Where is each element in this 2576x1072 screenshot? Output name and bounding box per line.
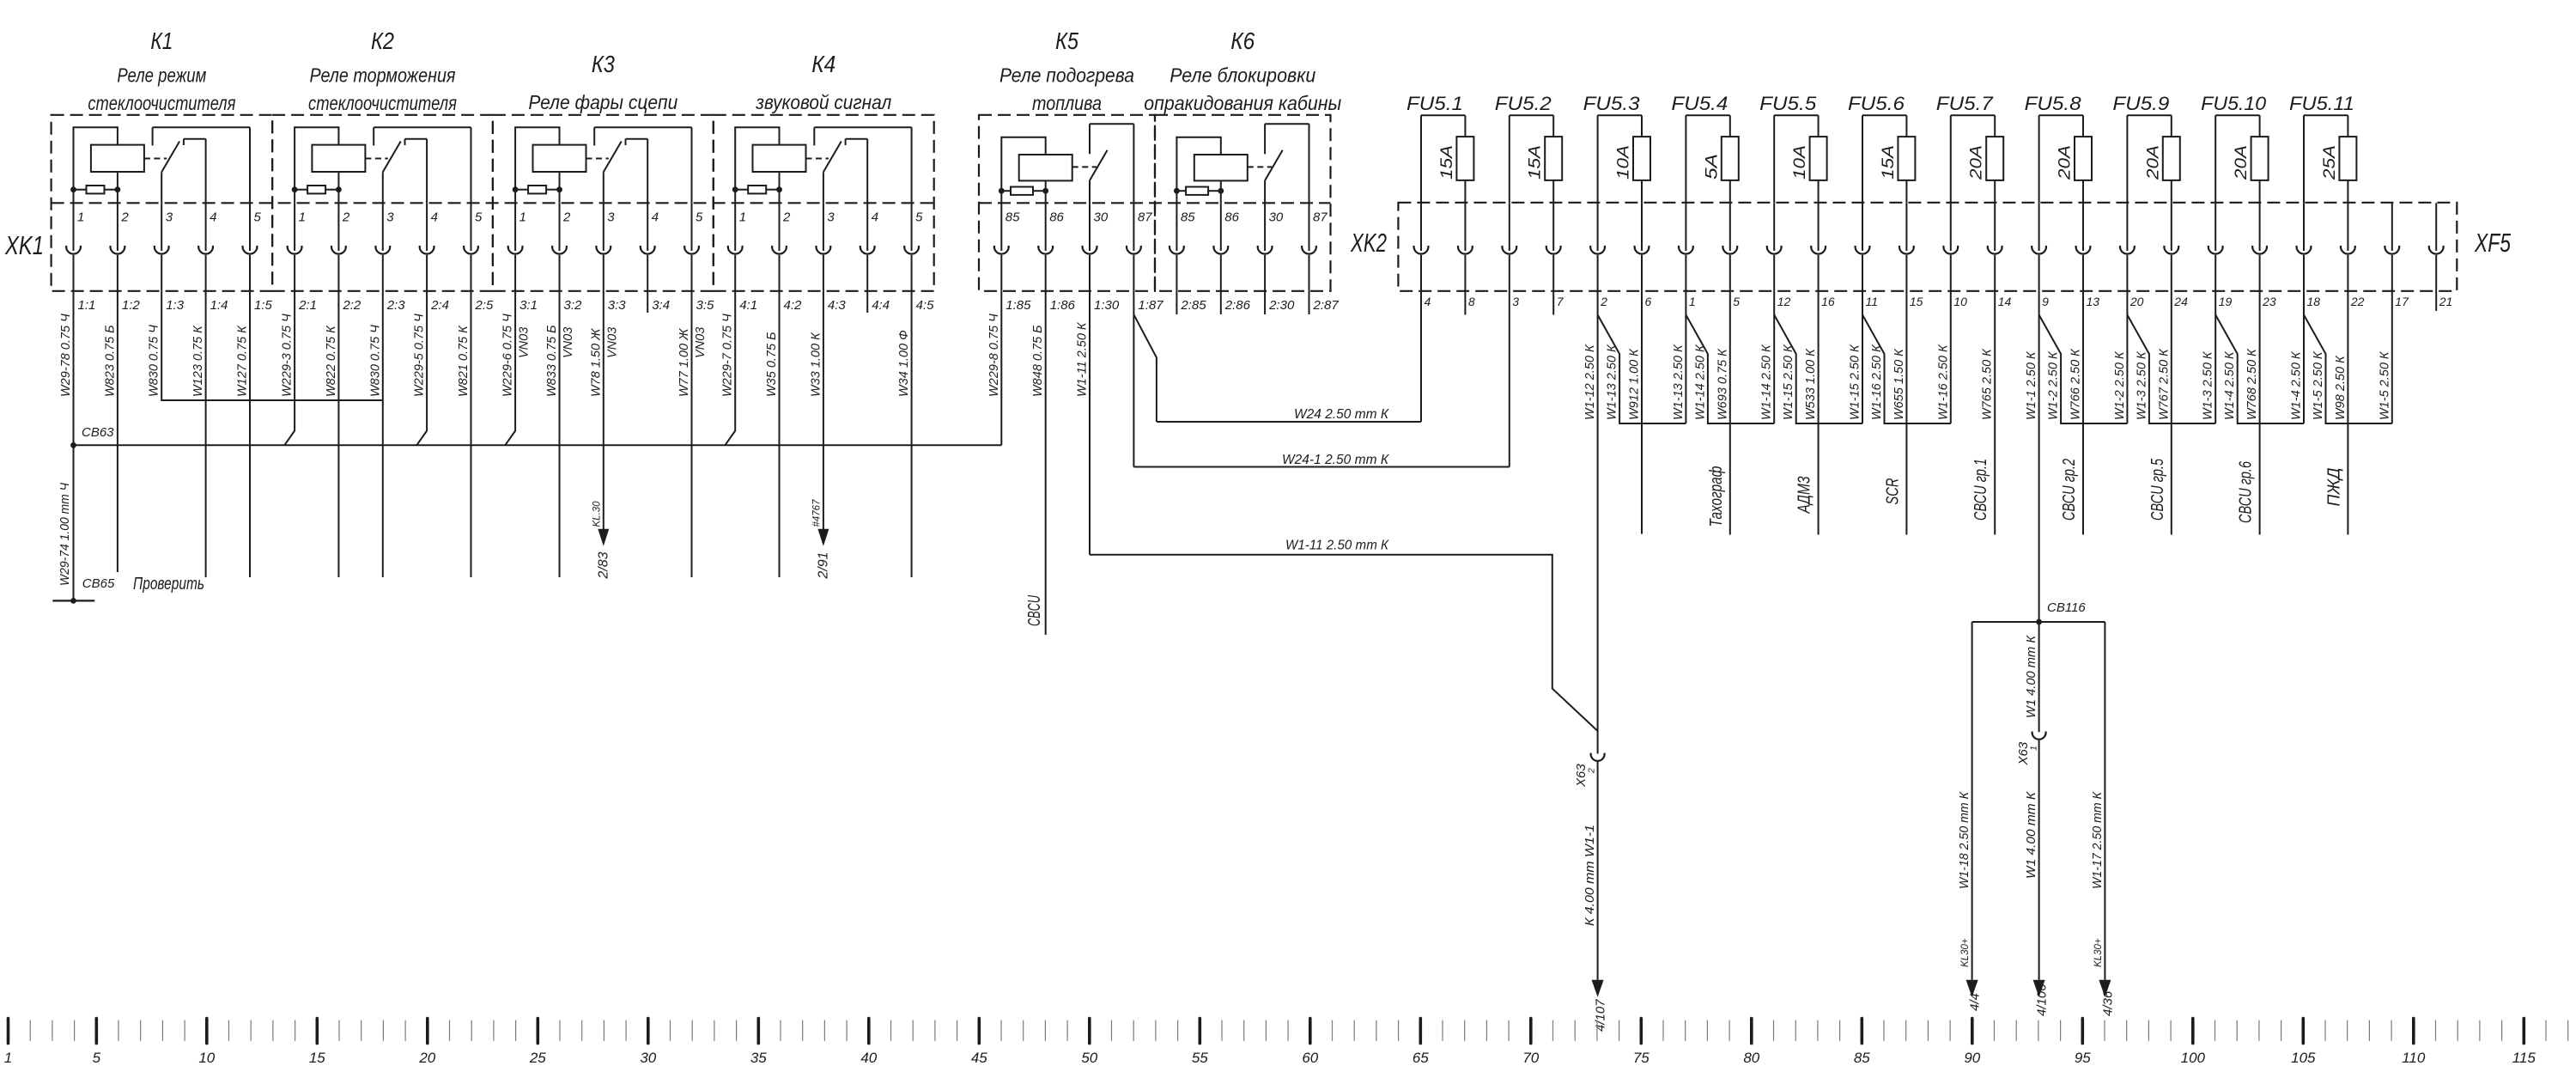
svg-text:25: 25 [529,1050,546,1066]
svg-text:Проверить: Проверить [133,575,204,594]
svg-text:FU5.2: FU5.2 [1495,93,1552,114]
wire 4:2 W35 [779,291,781,577]
svg-text:X63: X63 [1574,764,1589,788]
wire label VN03 [694,327,708,358]
XK1 pin 2:87 connector [1302,203,1339,313]
relay K2 title [308,27,457,114]
wire 4:4 stub [866,291,868,313]
svg-text:23: 23 [2262,295,2276,308]
svg-text:3:2: 3:2 [564,298,583,313]
svg-text:W229-8 0.75 Ч: W229-8 0.75 Ч [987,314,1001,397]
svg-text:W1-13 2.50 К: W1-13 2.50 К [1672,344,1686,420]
XK1 pin 1:1 connector [66,203,95,313]
XK2 pin 24 connector [2164,203,2188,308]
wire label W823 at pin x=136.9 [103,325,117,397]
svg-text:2:4: 2:4 [430,298,449,313]
svg-text:W1-18 2.50 mm К: W1-18 2.50 mm К [1958,791,1971,889]
wire pin8 stub [1464,291,1466,315]
wire pin17 W1-5 [2378,291,2392,423]
wire pin15 W655 to SCR [1883,291,1906,535]
XK2 pin 4 connector [1414,203,1431,308]
XK1 pin 3:4 connector [641,203,670,313]
svg-text:К1: К1 [150,27,173,54]
relay K6 coil [1176,137,1247,204]
bus W24-1 [1133,453,1509,467]
XK2 pin 10 connector [1943,203,1967,308]
XK2 pin 17 connector [2385,203,2409,308]
svg-text:1:86: 1:86 [1050,298,1076,313]
svg-text:30: 30 [1269,210,1284,225]
svg-text:FU5.9: FU5.9 [2112,93,2169,114]
wire branch W1-5 to pin17 [2304,315,2392,424]
svg-text:W766 2.50 К: W766 2.50 К [2069,348,2083,420]
svg-text:24: 24 [2173,295,2188,308]
XK1 pin 1:30 connector [1083,203,1120,313]
XK2 pin 12 connector [1767,203,1791,308]
wire W1 to connector X63 pin 1 [2025,622,2039,732]
svg-text:22: 22 [2350,295,2365,308]
XK2 pin 23 connector [2252,203,2276,308]
XK1 pin 1:87 connector [1127,203,1163,313]
svg-text:W1-13 2.50 К: W1-13 2.50 К [1606,344,1619,420]
XK2 pin 7 connector [1546,203,1564,308]
wire pin4 to bus W24 [1420,291,1422,422]
svg-text:1:3: 1:3 [166,298,185,313]
svg-text:CBCU: CBCU [1025,595,1044,626]
wire 3:5 W77 [691,291,693,577]
svg-text:W848 0.75 Б: W848 0.75 Б [1031,325,1045,397]
relay K2 resistor [292,186,342,203]
wire label W821 at pin x=548.5 [457,325,471,397]
svg-text:15A: 15A [1880,145,1898,180]
wire W1-17 to arrow 4/36 [2091,622,2116,1016]
svg-text:1:5: 1:5 [254,298,273,313]
svg-text:К2: К2 [371,27,394,54]
svg-text:4:1: 4:1 [739,298,757,313]
fuse FU5.6 15A [1848,93,1915,203]
relay K6 pin numbers [1181,210,1327,225]
svg-text:W1-16 2.50 К: W1-16 2.50 К [1936,344,1950,420]
svg-text:4: 4 [431,210,438,225]
svg-text:87: 87 [1138,210,1152,225]
svg-text:10A: 10A [1791,145,1809,180]
svg-text:95: 95 [2075,1050,2091,1066]
XK1 pin 4:2 connector [772,203,802,313]
svg-text:W912 1.00 К: W912 1.00 К [1628,348,1642,420]
svg-text:W1 4.00 mm К: W1 4.00 mm К [2025,790,2038,879]
XK1 pin 4:5 connector [904,203,934,313]
svg-text:2/91: 2/91 [816,551,830,579]
svg-text:20: 20 [418,1050,435,1066]
svg-text:2: 2 [562,210,571,225]
relay K1 contact [144,127,250,203]
svg-text:стеклоочистителя: стеклоочистителя [308,92,457,114]
XK2 pin 19 connector [2208,203,2233,308]
wire label W229-7 at pin x=856.2 [721,314,735,397]
XK1 pin 1:3 connector [155,203,185,313]
svg-text:1:30: 1:30 [1094,298,1120,313]
svg-text:W35 0.75 Б: W35 0.75 Б [765,332,779,397]
svg-text:W1-16 2.50 К: W1-16 2.50 К [1870,344,1884,420]
wire 4:1 W229-7 joins CB63 [725,291,735,446]
XK1 pin 1:86 connector [1038,203,1075,313]
svg-text:W33 1.00 К: W33 1.00 К [809,332,823,397]
relay K3 resistor [513,186,562,203]
wire 1:86 W848 to CBCU [1025,291,1046,635]
svg-text:21: 21 [2439,295,2453,308]
svg-text:W767 2.50 К: W767 2.50 К [2157,348,2171,420]
wire 2:3 W830 [382,291,384,577]
wire pin21 stub [2435,291,2437,311]
svg-text:2: 2 [1600,295,1607,308]
svg-text:1: 1 [4,1050,12,1066]
svg-text:опракидования кабины: опракидования кабины [1144,92,1341,114]
svg-text:15: 15 [1910,295,1923,308]
svg-text:VN03: VN03 [605,327,619,358]
svg-text:50: 50 [1081,1050,1097,1066]
XK1 pin separation line (K5-K6) [979,202,1331,204]
svg-text:1: 1 [2029,746,2039,751]
wire label W229-6 at pin x=600.1 [501,314,515,397]
svg-text:5: 5 [696,210,703,225]
svg-text:100: 100 [2181,1050,2206,1066]
svg-text:W765 2.50 К: W765 2.50 К [1981,348,1995,420]
wire pin7 stub [1552,291,1554,315]
wire label W833 at pin x=651.5 [545,325,559,397]
relay K5 coil [1001,137,1072,204]
svg-text:VN03: VN03 [694,327,708,358]
svg-text:KL.30: KL.30 [592,501,602,527]
node CB65 terminal [52,576,115,604]
svg-text:4/106: 4/106 [2035,984,2050,1016]
XK1 pin 1:4 connector [198,203,228,313]
connector X63 pin 1 [2016,732,2046,766]
XK2 pin 15 connector [1899,203,1923,308]
svg-text:СВСU гр.1: СВСU гр.1 [1971,459,1990,521]
svg-text:16: 16 [1821,295,1835,308]
svg-text:W1-5 2.50 К: W1-5 2.50 К [2312,350,2325,420]
svg-text:1:4: 1:4 [210,298,228,313]
svg-text:X63: X63 [2016,741,2031,765]
svg-text:Реле торможения: Реле торможения [310,64,456,87]
svg-text:2:5: 2:5 [475,298,495,313]
svg-text:W24 2.50 mm К: W24 2.50 mm К [1294,407,1389,422]
relay K3 coil [515,127,586,203]
svg-text:SCR: SCR [1883,478,1902,505]
svg-text:К3: К3 [592,51,615,77]
wire label W29-78 at pin x=85.5 [59,314,73,397]
svg-text:5A: 5A [1703,154,1721,180]
svg-text:W29-74 1.00 mm Ч: W29-74 1.00 mm Ч [58,483,72,586]
wire branch W1-2 to pin20 [2039,315,2128,424]
XK2 pin 20 connector [2120,203,2144,308]
svg-text:W1-15 2.50 К: W1-15 2.50 К [1849,344,1862,420]
svg-text:XK2: XK2 [1350,228,1387,258]
svg-text:20A: 20A [2233,145,2251,180]
XK1 pin 2:85 connector [1170,203,1206,313]
svg-text:VN03: VN03 [518,327,532,358]
relay K5 title [999,27,1134,114]
wire pin1 W1-13 [1672,291,1686,423]
svg-text:1:1: 1:1 [78,298,96,313]
wire branch W1-14 to pin12 [1686,315,1774,424]
svg-text:4:3: 4:3 [828,298,847,313]
relay K5 box [979,115,1155,291]
relay K6 contact [1248,124,1309,203]
XK1 pin separation line (K1-K4) [52,202,934,204]
wire 1:87 to bus W24-1 [1133,314,1134,466]
svg-text:5: 5 [915,210,923,225]
relay K3 box [493,115,714,291]
relay K4 contact [806,127,912,203]
wire pin24 W767 to CBCU гр.5 [2148,291,2172,535]
wire label VN03 [518,327,532,358]
svg-text:1: 1 [77,210,84,225]
svg-text:8: 8 [1468,295,1475,308]
svg-text:W34 1.00 Ф: W34 1.00 Ф [897,330,911,397]
connector X63 pin 2 [1574,753,1605,788]
relay K1 pin numbers [77,210,262,225]
fuse FU5.2 15A [1495,93,1562,203]
XK2 pin 13 connector [2076,203,2100,308]
svg-text:4: 4 [210,210,216,225]
svg-text:85: 85 [1181,210,1195,225]
svg-text:W830 0.75 Ч: W830 0.75 Ч [368,325,382,397]
svg-text:W655 1.50 К: W655 1.50 К [1893,348,1906,420]
svg-text:W533 1.00 К: W533 1.00 К [1804,348,1818,420]
relay K4 box [714,115,934,291]
svg-text:Реле режим: Реле режим [117,64,206,87]
wire pin18 W1-4 [2290,291,2305,423]
wire label W78 at pin x=702.8 [589,328,603,397]
wire W29-74 CB63 to CB65 [58,445,74,600]
svg-text:3:3: 3:3 [608,298,627,313]
svg-text:20A: 20A [2144,145,2162,180]
svg-text:10: 10 [1953,295,1967,308]
wire 4:3 W33 to arrow 2/91 [811,291,830,580]
svg-text:W229-6 0.75 Ч: W229-6 0.75 Ч [501,314,515,397]
svg-text:W830 0.75 Ч: W830 0.75 Ч [148,325,161,397]
svg-text:К6: К6 [1230,27,1255,54]
wire branch W1-16 to pin10 [1862,315,1951,424]
relay K3 contact [586,127,692,203]
wire label W127 at pin x=291 [236,325,250,397]
relay K2 coil [295,127,365,203]
XK1 pin 2:86 connector [1213,203,1250,313]
relay K3 pin numbers [519,210,703,225]
relay K2 contact [365,127,471,203]
XK1 pin 3:1 connector [508,203,538,313]
wire label W822 at pin x=394.4 [325,325,338,397]
svg-text:FU5.1: FU5.1 [1406,93,1463,114]
XK1 pin 3:2 connector [552,203,582,313]
wire W1-18 to arrow 4/4 [1958,622,1983,1011]
svg-text:85: 85 [1854,1050,1870,1066]
svg-text:W1-12 2.50 К: W1-12 2.50 К [1583,344,1597,420]
svg-text:стеклоочистителя: стеклоочистителя [88,92,235,114]
svg-text:W833 0.75 Б: W833 0.75 Б [545,325,559,397]
svg-text:FU5.8: FU5.8 [2025,93,2082,114]
wire 4:5 W34 [911,291,913,577]
wire pin3 to bus W24-1 [1509,291,1510,467]
wire 2:5 W821 [471,291,472,577]
XK1 pin 2:2 connector [331,203,361,313]
bus CB63 [70,425,1001,448]
fuse FU5.11 25A [2289,93,2356,203]
svg-text:15: 15 [309,1050,325,1066]
svg-text:4: 4 [872,210,878,225]
svg-text:86: 86 [1049,210,1064,225]
svg-text:2: 2 [782,210,791,225]
relay K5 pin numbers [1005,210,1152,225]
svg-text:19: 19 [2219,295,2233,308]
wire pin11 W1-15 [1849,291,1863,423]
XK1 pin 2:4 connector [420,203,449,313]
wire 1:87 stub [1133,291,1134,314]
svg-text:1:2: 1:2 [122,298,141,313]
svg-text:W24-1 2.50 mm К: W24-1 2.50 mm К [1282,453,1389,467]
svg-text:W1-1 2.50 К: W1-1 2.50 К [2025,350,2038,420]
svg-text:15A: 15A [1438,145,1456,180]
wire label W229-3 at pin x=343.1 [281,314,295,397]
wire branch W1-3 to pin19 [2127,315,2215,424]
svg-text:3: 3 [166,210,173,225]
svg-text:35: 35 [750,1050,767,1066]
svg-text:60: 60 [1302,1050,1318,1066]
svg-text:80: 80 [1743,1050,1759,1066]
relay K4 title [755,51,891,113]
svg-text:W1-5 2.50 К: W1-5 2.50 К [2378,350,2391,420]
svg-text:XF5: XF5 [2474,228,2511,258]
svg-text:W823 0.75 Б: W823 0.75 Б [103,325,117,397]
svg-text:FU5.6: FU5.6 [1848,93,1905,114]
relay K6 resistor [1174,187,1224,204]
svg-text:85: 85 [1005,210,1020,225]
svg-text:10A: 10A [1615,145,1633,180]
fuse FU5.5 10A [1759,93,1826,203]
svg-text:W1-14 2.50 К: W1-14 2.50 К [1693,344,1707,420]
XK1 pin 4:1 connector [728,203,757,313]
connector XF5 label [2474,228,2511,258]
wire 2:87 stub [1309,291,1310,314]
svg-text:2:86: 2:86 [1224,298,1251,313]
svg-text:W1-4 2.50 К: W1-4 2.50 К [2223,350,2237,420]
XK2 pin 6 connector [1635,203,1652,308]
wire pin6 W912 [1628,291,1643,534]
XK1 pin 2:30 connector [1258,203,1295,313]
wire pin9 W1-1 down to node CB116 [2025,291,2039,622]
wire branch W1-15 to pin11 [1774,315,1862,424]
svg-text:7: 7 [1557,295,1564,308]
svg-text:4: 4 [652,210,659,225]
wire pin5 W693 to Тахограф [1707,291,1730,535]
XK2 pin 21 connector [2429,203,2452,308]
relay K2 box [272,115,493,291]
svg-text:3:5: 3:5 [696,298,715,313]
connector strip XK2/XF5 box [1398,203,2457,291]
wire pin16 W533 to АДМ3 [1795,291,1819,535]
svg-text:20: 20 [2129,295,2144,308]
svg-text:W1-11 2.50 К: W1-11 2.50 К [1076,321,1090,397]
wire 2:2 W822 [337,291,339,577]
wire 3:1 W229-6 joins CB63 [505,291,515,446]
svg-text:К 4.00 mm W1-1: К 4.00 mm W1-1 [1583,825,1597,926]
wire label W830 at pin x=445.8 [368,325,382,397]
svg-text:W693 0.75 К: W693 0.75 К [1716,348,1729,420]
ruler numbers [4,1050,2537,1066]
svg-text:1: 1 [1689,295,1696,308]
svg-text:13: 13 [2087,295,2100,308]
wire label W848 at pin x=1217.7 [1031,325,1045,397]
svg-text:2:3: 2:3 [386,298,406,313]
bus W1-11 [1090,539,1598,731]
svg-text:Реле фары сцепи: Реле фары сцепи [528,91,677,113]
fuse FU5.9 20A [2112,93,2179,203]
svg-text:3:1: 3:1 [519,298,538,313]
svg-text:W29-78 0.75 Ч: W29-78 0.75 Ч [59,314,73,397]
relay K1 box [52,115,273,291]
relay K2 pin numbers [299,210,483,225]
wire 2:85 stub [1176,291,1177,314]
XK1 pin 3:5 connector [684,203,714,313]
wire 1:2 W823 [117,291,118,572]
svg-text:115: 115 [2512,1050,2537,1066]
XK2 pin 18 connector [2297,203,2321,308]
svg-text:2:85: 2:85 [1180,298,1206,313]
wire W1-1 down to arrow 4/107 [1583,762,1608,1032]
svg-text:70: 70 [1522,1050,1539,1066]
svg-text:2: 2 [342,210,350,225]
svg-text:2:30: 2:30 [1268,298,1295,313]
svg-text:АДМ3: АДМ3 [1795,477,1814,515]
svg-text:4/36: 4/36 [2100,990,2115,1016]
svg-text:3:4: 3:4 [652,298,670,313]
svg-text:#4767: #4767 [811,499,822,527]
svg-text:87: 87 [1313,210,1327,225]
svg-text:W1-2 2.50 К: W1-2 2.50 К [2047,350,2061,420]
svg-text:ПЖД: ПЖД [2324,468,2343,507]
XK1 pin 1:85 connector [994,203,1031,313]
svg-text:W229-5 0.75 Ч: W229-5 0.75 Ч [413,314,427,397]
wire 1:87 branch to bus W24 [1133,314,1157,422]
svg-text:W123 0.75 К: W123 0.75 К [191,325,205,397]
svg-text:40: 40 [860,1050,877,1066]
wire pin23 W768 to CBCU гр.6 [2237,291,2260,535]
svg-text:W1-3 2.50 К: W1-3 2.50 К [2202,350,2215,420]
wire label W123 at pin x=239.6 [191,325,205,397]
fuse FU5.4 5A [1671,93,1738,203]
svg-text:W1-17 2.50 mm К: W1-17 2.50 mm К [2091,791,2105,889]
relay K4 resistor [732,186,782,203]
svg-text:KL30+: KL30+ [1960,938,1971,967]
wire 1:30 W1-11 [1089,291,1091,555]
svg-text:FU5.7: FU5.7 [1936,93,1994,114]
svg-text:45: 45 [971,1050,987,1066]
svg-text:W229-7 0.75 Ч: W229-7 0.75 Ч [721,314,735,397]
wire label VN03 [562,327,575,358]
svg-text:Реле блокировки: Реле блокировки [1170,64,1315,87]
XK2 pin 14 connector [1988,203,2012,308]
svg-text:FU5.10: FU5.10 [2201,93,2267,114]
svg-text:CB116: CB116 [2047,600,2086,615]
svg-text:СВСU гр.5: СВСU гр.5 [2148,458,2167,521]
svg-text:FU5.3: FU5.3 [1583,93,1641,114]
svg-text:W1-11 2.50 mm К: W1-11 2.50 mm К [1285,539,1389,553]
wire 2:86 stub [1220,291,1222,314]
svg-text:105: 105 [2291,1050,2316,1066]
svg-text:4:4: 4:4 [872,298,890,313]
svg-text:FU5.11: FU5.11 [2289,93,2354,114]
